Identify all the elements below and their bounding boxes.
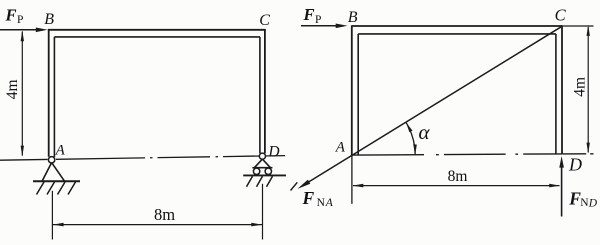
pin circle at A [48,157,54,163]
beam BC inner line [54,36,260,38]
pin circle at D [259,153,265,159]
column DC inner line (right figure) [555,34,557,154]
4m dimension line (left figure) [21,32,23,156]
svg-text:C: C [555,6,567,25]
svg-text:F: F [302,188,315,208]
svg-text:D: D [588,197,598,209]
beam BC inner line (right figure) [358,33,556,35]
column AB outer line (right figure) [351,25,353,155]
svg-text:P: P [17,14,23,26]
angle arc alpha at A [406,123,415,155]
svg-text:B: B [348,9,358,26]
column DC inner line [259,37,261,153]
force FP arrow at B (left figure) [0,29,38,31]
svg-text:A: A [55,143,66,159]
svg-text:F: F [303,5,315,24]
support D triangle [252,159,272,168]
support D rollers [253,168,259,174]
centerline axis through A and D (dash-dot) [0,156,285,161]
svg-text:4m: 4m [4,79,21,99]
svg-text:F: F [568,189,581,209]
support D ground line [243,174,286,176]
support A ground line [33,180,80,182]
svg-text:8m: 8m [448,168,468,185]
support A hatching [37,182,76,195]
beam BC outer line [48,29,266,31]
svg-text:8m: 8m [154,205,175,224]
reaction FND arrow at D (points up) [561,163,563,217]
svg-text:A: A [335,139,346,155]
svg-text:C: C [259,12,270,29]
svg-text:D: D [267,144,279,161]
8m dimension (left figure): extension lines [51,191,53,240]
svg-text:4m: 4m [571,77,588,97]
column DC outer line (right figure) [561,25,563,154]
column AB extension below A (8m extension line) [351,155,353,204]
beam BC outer line (right figure, extends right as 4m extension) [352,25,563,27]
column AB outer line [48,29,50,157]
column DC outer line [264,29,266,153]
bottom chord A-D (solid then dash-dot centerline) [352,154,594,155]
8m dimension line (right figure) [353,185,560,187]
svg-text:F: F [5,6,17,25]
support A triangle [42,163,64,181]
FNA arrowhead (points down-left past A) [297,180,310,189]
svg-text:α: α [418,120,430,144]
svg-text:B: B [44,11,54,28]
column AB inner line (right figure) [357,34,359,155]
svg-text:P: P [315,14,321,26]
svg-text:D: D [568,154,582,174]
column AB inner line [53,37,55,157]
force FP arrow at B (right figure) [301,25,337,27]
4m dimension line (right figure) [587,27,589,152]
diagonal tie A-C [304,26,563,185]
svg-text:A: A [325,197,334,209]
8m dimension line (left figure) [53,224,262,226]
support D hatching [247,176,273,187]
stray hatch mark right of support D [291,182,298,190]
svg-text:N: N [317,197,326,209]
